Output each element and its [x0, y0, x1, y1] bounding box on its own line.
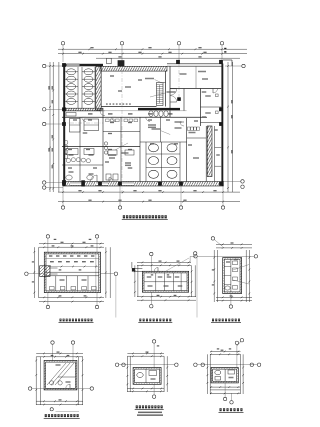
main plan top dimension lines [58, 48, 247, 50]
detail 3 axis hline + side bubbles [197, 255, 254, 257]
detail 5 top stem + bubble [152, 340, 155, 343]
wall below stalls [63, 108, 103, 111]
detail 2 door arc [154, 268, 158, 272]
detail 1 plan walls [44, 252, 100, 292]
main plan axis bubble right top [242, 64, 245, 67]
detail 1 caption [60, 319, 62, 322]
leader notes main plan [150, 93, 165, 97]
column markers [62, 63, 66, 67]
main plan axis bubbles left [46, 65, 63, 67]
rubble stone wall L-shape [64, 141, 68, 145]
detail 2 bottom bubble [150, 305, 153, 308]
main plan axis bubbles bottom [62, 186, 64, 206]
corridor text specks [88, 113, 93, 114]
main plan bottom dimension lines [58, 191, 240, 193]
detail 4 caption [45, 414, 47, 417]
detail 3 left dims [213, 250, 215, 302]
text row above hall south wall [106, 103, 108, 104]
main plan axis bubbles top [62, 45, 64, 62]
fixtures mid-bottom room [106, 174, 111, 180]
detail 3 caption [212, 319, 214, 322]
waiting area label + leader [152, 128, 161, 130]
detail 1 top dims [39, 243, 104, 245]
scattered room label specks [73, 119, 77, 120]
text rows right of corridor [175, 121, 182, 123]
detail 4 interior ramp diagonals [47, 363, 66, 385]
axis line y=123 dash [62, 122, 103, 124]
detail 2 bottom dims [137, 296, 196, 298]
detail 6 axis hline + side bubble pairs [197, 364, 257, 366]
washbasin circles x=106 [104, 142, 107, 145]
detail 5 right dims [163, 356, 165, 392]
chimney block above hall wall [118, 60, 125, 66]
hatched wall between stalls and hall [96, 67, 101, 111]
misc fixtures [66, 113, 76, 117]
detail 2 plan walls [142, 271, 188, 292]
doors middle band [82, 117, 86, 121]
detail 4 top dims [36, 352, 83, 354]
detail 3 plan walls (tall) [223, 258, 242, 294]
detail 4 top stems + bubbles [51, 341, 54, 344]
large right room [186, 118, 188, 182]
detail 4 lowest dim + bubble [50, 408, 53, 411]
WC stalls upper-left: partitions [77, 67, 79, 108]
zigzag hatched wall right side [207, 126, 212, 177]
detail 6 plan walls [211, 368, 238, 383]
detail 3 axis bubble top-left [211, 237, 214, 240]
detail 4 plan walls [44, 361, 77, 390]
column at axis x=179 mid [177, 97, 181, 101]
detail 1 entry block left [40, 266, 50, 277]
lower band rooms [79, 147, 81, 182]
detail 1 left dims [33, 247, 35, 298]
right column rooms upper [200, 89, 202, 127]
main plan left dimension lines [49, 62, 51, 192]
detail 2 top dims [137, 261, 191, 263]
detail 2 diagonal leader to bubble [166, 258, 189, 271]
vertical leader below detail 1 right bubble [115, 275, 117, 317]
detail 1 right dims [105, 247, 107, 298]
detail 5 left dims [126, 356, 128, 392]
detail 4 toilet circles [50, 381, 54, 385]
detail 1 stall partition [46, 271, 99, 273]
middle band partitions [79, 117, 81, 146]
detail 3 bottom bubble [229, 305, 232, 308]
detail 6 left dims [206, 354, 208, 394]
detail 4 left dims [35, 357, 37, 405]
left dim vertical text [52, 100, 53, 103]
axis line x=179 dash [178, 62, 180, 102]
detail 6 caption [220, 408, 222, 411]
detail 2 axis bubble top [150, 252, 153, 255]
detail 5 bottom dims [127, 388, 164, 390]
main plan axis bubbles right bottom [241, 180, 244, 183]
detail 6 right dims [239, 354, 241, 394]
detail 2 right dims [191, 265, 193, 297]
main plan right dimension lines [227, 62, 229, 192]
lower-right WC stalls [145, 142, 147, 182]
WC stalls upper-left: toilet fixtures [67, 69, 76, 75]
detail 6 bottom stems + bubbles [223, 397, 226, 400]
door arc right corridor [180, 122, 184, 126]
detail 1 interior top text rows [46, 258, 99, 260]
detail 1 bottom dims [39, 296, 104, 298]
right extension wing [223, 59, 232, 61]
detail 5 plan walls [133, 368, 161, 385]
detail 2 left stub wall [132, 267, 143, 269]
main plan exterior walls [63, 64, 65, 187]
specks right of top bubble 4 [224, 48, 226, 49]
detail 6 top bubbles + leaders [235, 341, 238, 344]
tables in left room [70, 119, 81, 133]
detail 1 interior mid dim line [48, 266, 98, 268]
right narrow column rooms lower [214, 126, 216, 182]
detail 5 interior [145, 369, 147, 383]
stair note label + leader [145, 78, 154, 80]
detail 4 axis hline + side bubbles [32, 388, 90, 390]
bottom wall window openings [70, 182, 82, 185]
detail 3 top dims [216, 243, 252, 245]
detail 5 bottom stem + bubble [152, 395, 155, 398]
main plan bottom wall hatched [63, 182, 224, 187]
main plan caption [123, 215, 125, 218]
vertical leader below detail 3 left bubble [196, 258, 198, 318]
detail 2 left dims [134, 265, 136, 297]
central hall [100, 72, 102, 107]
washbasin rows middle band [106, 119, 110, 122]
axis line x=122 dash [121, 62, 123, 195]
corridor walls [62, 116, 207, 118]
detail 2 axis bubble top-right w/ leader [194, 252, 197, 255]
small round fixtures bottom-left rooms [66, 175, 72, 180]
detail 2 interior partitions [155, 273, 157, 291]
detail 3 bottom dims [216, 296, 252, 298]
detail 3 interior [230, 259, 232, 292]
detail 6 bottom dims [210, 386, 240, 388]
detail 1 right axis bubble [114, 272, 117, 275]
detail 5 caption [136, 405, 138, 408]
washbasin row right [188, 127, 191, 130]
detail 3 right dims [245, 250, 247, 302]
upper right rooms [169, 66, 171, 117]
detail 4 bottom dims [36, 400, 83, 402]
detail 6 interior [224, 369, 226, 381]
detail 1 axis bubbles top [46, 235, 49, 238]
detail 1 left axis bubble [25, 272, 28, 275]
urinal row on corridor north wall [138, 108, 180, 110]
detail 6 top dims [210, 351, 240, 353]
detail 1 bottom bubbles [46, 305, 49, 308]
detail 5 top dims [127, 352, 164, 354]
detail 2 caption [139, 319, 141, 322]
entrance door in bottom wall [81, 180, 85, 186]
vent protrusion above wall junction [107, 58, 112, 63]
detail 3 leader lines [233, 265, 249, 271]
detail 4 door arc [66, 384, 70, 388]
detail 4 right dims [77, 357, 79, 405]
detail 5 axis hline + side bubbles [119, 364, 175, 366]
stair [157, 83, 164, 106]
hall door to corridor [100, 111, 105, 116]
detail 2 stub blob [132, 269, 135, 272]
detail 5 notes [138, 412, 162, 414]
